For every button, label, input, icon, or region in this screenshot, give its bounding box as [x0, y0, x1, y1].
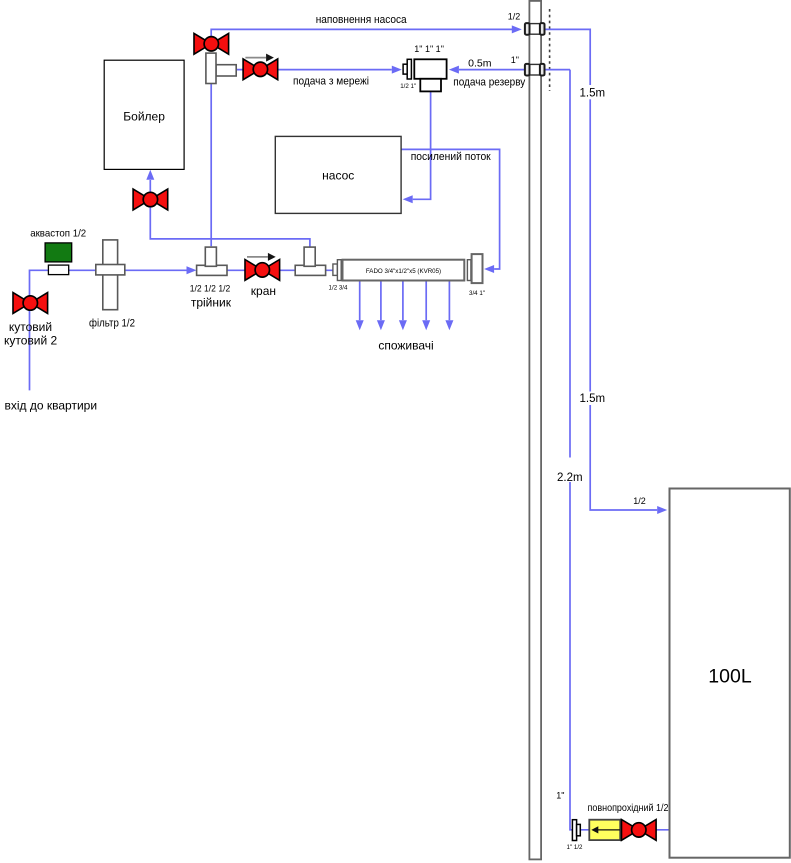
- svg-text:наповнення насоса: наповнення насоса: [316, 14, 408, 26]
- svg-text:1.5m: 1.5m: [580, 393, 606, 405]
- svg-text:повнопрохідний 1/2: повнопрохідний 1/2: [588, 802, 669, 814]
- svg-text:кутовий: кутовий: [9, 320, 52, 334]
- svg-text:1/2 1/2 1/2: 1/2 1/2 1/2: [190, 283, 231, 293]
- svg-text:1": 1": [556, 791, 564, 801]
- svg-text:1" 1/2: 1" 1/2: [567, 844, 584, 851]
- svg-text:1/2: 1/2: [633, 496, 646, 506]
- svg-text:1/2 1": 1/2 1": [400, 83, 416, 90]
- svg-text:100L: 100L: [708, 666, 752, 688]
- svg-text:трійник: трійник: [191, 295, 232, 309]
- svg-text:3/4 1": 3/4 1": [469, 290, 485, 297]
- svg-text:вхід до квартири: вхід до квартири: [5, 399, 98, 413]
- svg-text:кран: кран: [251, 284, 276, 298]
- svg-text:FADO 3/4"x1/2"x5 (KVR05): FADO 3/4"x1/2"x5 (KVR05): [366, 268, 441, 275]
- svg-text:посилений поток: посилений поток: [411, 151, 491, 163]
- svg-text:Бойлер: Бойлер: [123, 109, 165, 123]
- svg-text:аквастоп 1/2: аквастоп 1/2: [30, 228, 86, 240]
- svg-text:2.2m: 2.2m: [557, 472, 583, 484]
- svg-text:0.5m: 0.5m: [468, 58, 492, 70]
- svg-text:фільтр 1/2: фільтр 1/2: [89, 318, 135, 330]
- svg-text:споживачі: споживачі: [378, 339, 433, 353]
- svg-text:1" 1" 1": 1" 1" 1": [414, 44, 444, 54]
- svg-text:1/2: 1/2: [508, 11, 521, 21]
- svg-text:насос: насос: [322, 168, 354, 182]
- svg-text:подача резерву: подача резерву: [453, 77, 525, 89]
- svg-text:1": 1": [511, 55, 519, 65]
- svg-text:1/2 3/4: 1/2 3/4: [329, 284, 348, 291]
- svg-text:подача з мережі: подача з мережі: [293, 76, 369, 88]
- svg-text:кутовий 2: кутовий 2: [4, 334, 58, 348]
- svg-text:1.5m: 1.5m: [580, 88, 606, 100]
